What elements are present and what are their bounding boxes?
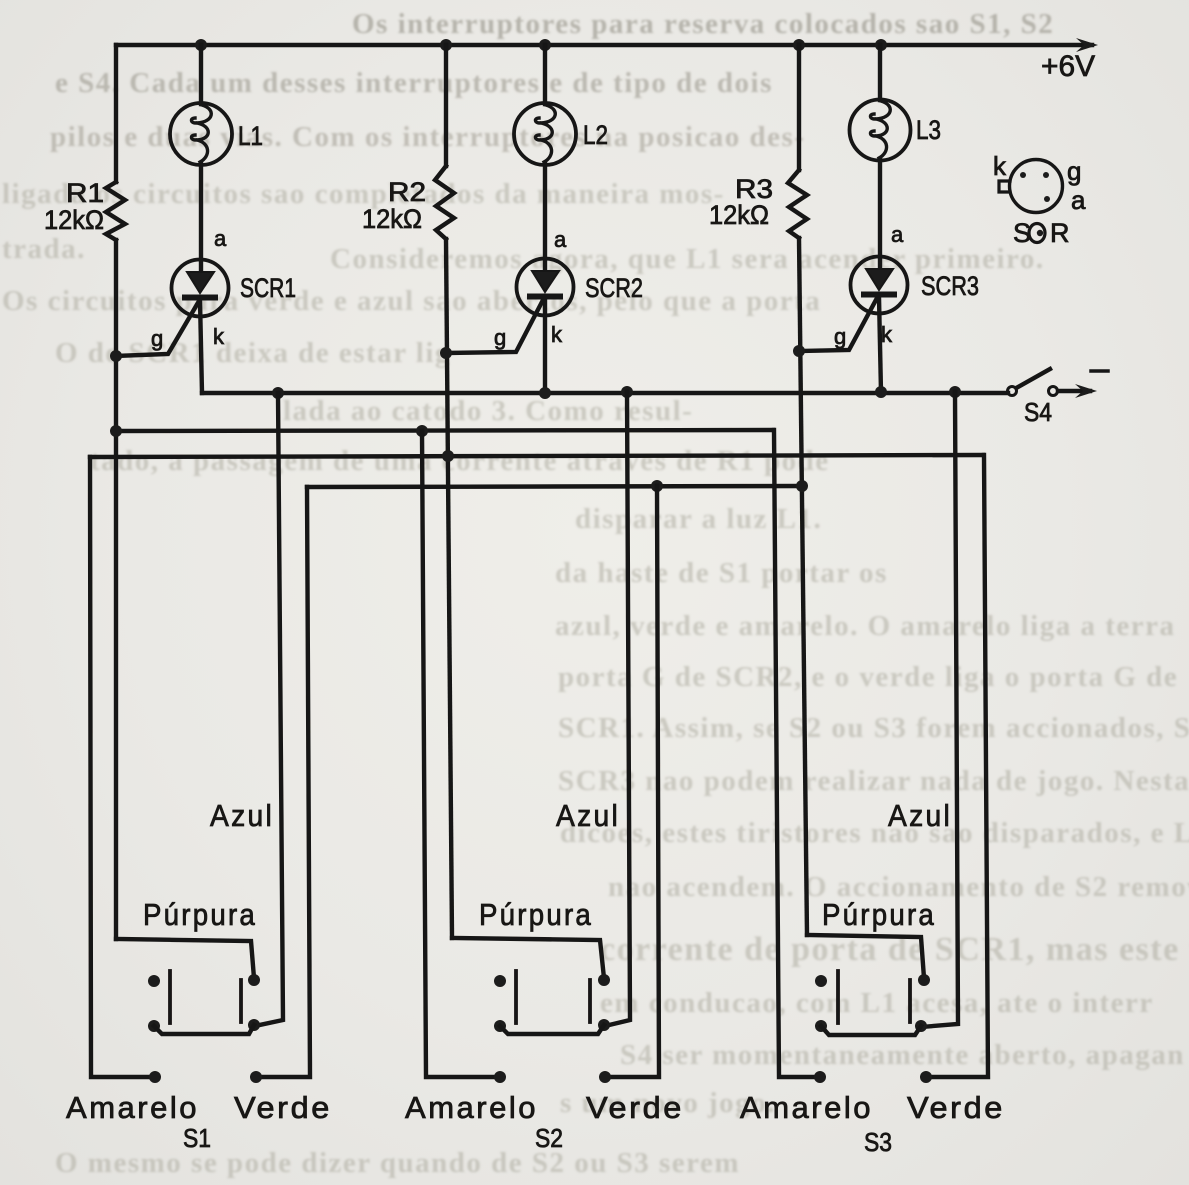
connector SOR label ring dot <box>1037 230 1043 236</box>
node top rail / R3 column <box>793 39 805 51</box>
wire L3 to SCR3 anode <box>878 160 882 269</box>
connector SOR pin a dot <box>1044 196 1050 202</box>
switch S2 top-right contact <box>598 974 610 986</box>
lamp L1 <box>170 103 232 165</box>
wire S3 yellow drop <box>774 430 820 1077</box>
switch S1 top-left contact <box>148 975 160 987</box>
switch S3 top-right contact <box>918 974 930 986</box>
node top rail / L1 column <box>195 39 207 51</box>
SCR1 anode triangle <box>187 272 214 293</box>
svg-text:SCR3: SCR3 <box>921 271 979 301</box>
svg-text:O mesmo se pode dizer quando d: O mesmo se pode dizer quando de S2 ou S3… <box>55 1147 740 1179</box>
svg-text:em conducao, com L1 acesa, ate: em conducao, com L1 acesa, ate o interr <box>600 987 1154 1019</box>
svg-text:Azul: Azul <box>556 798 620 833</box>
svg-text:disparar a luz L1.: disparar a luz L1. <box>575 503 822 535</box>
svg-text:S1: S1 <box>183 1123 211 1153</box>
svg-text:g: g <box>1067 156 1081 186</box>
wire SCR2 cathode down to rail <box>543 299 547 393</box>
wire S3 green drop <box>926 455 988 1077</box>
wire L2 top lead <box>543 45 547 104</box>
node top rail / L2 column <box>539 39 551 51</box>
svg-text:12kΩ: 12kΩ <box>44 205 104 235</box>
svg-text:S2: S2 <box>535 1123 563 1153</box>
node gate SCR2 / R2 column <box>440 347 452 359</box>
node rail / S1 blue drop <box>272 387 284 399</box>
switch S1 right pole stroke <box>239 980 243 1022</box>
svg-text:da haste de S1 portar os: da haste de S1 portar os <box>555 557 888 589</box>
S4 output arrowhead <box>1075 384 1097 398</box>
node gate SCR3 / R3 column <box>793 345 805 357</box>
svg-text:L2: L2 <box>583 120 608 150</box>
wire R1 top lead <box>114 45 118 182</box>
switch S2 green terminal <box>599 1071 611 1083</box>
svg-text:dicoes, estes tiristores nao s: dicoes, estes tiristores nao sao dispara… <box>560 817 1189 849</box>
battery minus sign <box>1091 369 1108 373</box>
svg-text:R1: R1 <box>66 178 104 208</box>
svg-text:a: a <box>891 222 904 247</box>
svg-text:L1: L1 <box>238 121 263 151</box>
svg-text:lada ao catodo 3. Como resul-: lada ao catodo 3. Como resul- <box>283 395 693 427</box>
svg-text:azul, verde e amarelo. O amare: azul, verde e amarelo. O amarelo liga a … <box>555 610 1175 642</box>
wire +6V top rail <box>116 43 1092 47</box>
wire S2 yellow drop <box>422 431 500 1077</box>
lamp L1 filament <box>191 105 211 162</box>
wire gate3 horizontal run <box>307 486 801 487</box>
svg-text:porta G de SCR2, e o verde lig: porta G de SCR2, e o verde liga o porta … <box>558 661 1178 693</box>
wire R3 column down to S3 purple elbow <box>799 238 807 935</box>
svg-text:R2: R2 <box>388 177 426 207</box>
switch S4 left contact <box>1008 387 1017 396</box>
svg-text:Os circuitos para verde e azul: Os circuitos para verde e azul sao abert… <box>2 285 821 317</box>
connector SOR package circle <box>1010 160 1063 213</box>
+6V rail arrowhead <box>1076 38 1098 52</box>
wire SCR3 cathode down to rail <box>879 297 881 392</box>
resistor R3 <box>788 170 807 238</box>
switch S2 left pole stroke <box>514 971 518 1023</box>
wire R2 top lead <box>444 45 448 166</box>
svg-text:Púrpura: Púrpura <box>143 897 257 932</box>
svg-text:k: k <box>551 322 563 347</box>
wire S4 to battery minus <box>1058 389 1090 393</box>
switch S2 bottom-left contact <box>494 1020 506 1032</box>
switch S3 top-left contact <box>815 975 827 987</box>
svg-text:g: g <box>494 325 506 350</box>
connector SOR pin k dot <box>1020 172 1026 178</box>
SCR2 cathode bar <box>530 294 560 300</box>
resistor R2 <box>435 166 454 239</box>
wire S2 purple lead <box>452 938 604 978</box>
svg-text:S4: S4 <box>1024 397 1052 427</box>
SCR3 cathode bar <box>864 292 894 298</box>
lamp L2 <box>514 103 576 165</box>
svg-text:Verde: Verde <box>907 1090 1005 1125</box>
wire S2 blue drop <box>605 392 630 1026</box>
wire R3 top lead <box>797 45 801 170</box>
svg-text:trada.: trada. <box>2 233 86 265</box>
svg-text:a: a <box>214 226 227 251</box>
wire L1 top lead <box>199 45 203 104</box>
switch S1 bottom-left contact <box>148 1020 160 1032</box>
svg-text:SCR1: SCR1 <box>240 273 296 303</box>
switch S1 top-right contact <box>248 974 260 986</box>
wire SCR1 gate diagonal <box>116 301 199 356</box>
connector SOR pin g dot <box>1043 172 1049 178</box>
svg-text:k: k <box>213 324 225 349</box>
wire R1 column down to S1 purple elbow <box>114 240 118 939</box>
wire S2 green drop <box>605 486 659 1077</box>
switch S1 bridge bar <box>154 1025 254 1034</box>
wire L2 to SCR2 anode <box>543 164 547 271</box>
switch S2 bridge bar <box>500 1025 604 1034</box>
node rail / S3 blue drop <box>949 386 961 398</box>
switch S3 green terminal <box>920 1071 932 1083</box>
switch S1 yellow terminal <box>149 1071 161 1083</box>
wire S3 blue drop <box>921 392 958 1027</box>
svg-text:g: g <box>151 326 163 351</box>
wire S1 green drop <box>256 487 310 1077</box>
svg-text:pilos e duas vias. Com os inte: pilos e duas vias. Com os interruptores … <box>50 121 805 153</box>
SCR1 circle <box>172 260 229 317</box>
svg-text:R: R <box>1050 218 1070 248</box>
switch S3 left pole stroke <box>836 971 840 1023</box>
svg-text:k: k <box>993 151 1007 181</box>
svg-text:S4 ser momentaneamente aberto,: S4 ser momentaneamente aberto, apagan <box>620 1039 1185 1071</box>
svg-text:Azul: Azul <box>888 798 952 833</box>
switch S3 bridge bar <box>821 1026 921 1035</box>
lamp L3 filament <box>870 101 890 158</box>
svg-text:S3: S3 <box>864 1127 892 1157</box>
wire SCR3 gate diagonal <box>799 298 877 351</box>
connector SOR label ring <box>1029 224 1045 243</box>
wire cathode rail <box>202 391 1008 395</box>
lamp L3 <box>850 100 911 161</box>
node top rail / R2 column <box>440 39 452 51</box>
node gate1 run / S2 yellow drop <box>416 425 428 437</box>
node top rail / L3 column <box>875 39 887 51</box>
wire gate2 horizontal run <box>90 455 983 457</box>
wire L3 top lead <box>878 45 882 100</box>
svg-text:Amarelo: Amarelo <box>66 1090 199 1125</box>
switch S3 yellow terminal <box>814 1071 826 1083</box>
switch S4 lever <box>1018 369 1050 387</box>
svg-text:SCR2: SCR2 <box>585 273 643 303</box>
switch S2 bottom-right contact <box>598 1019 610 1031</box>
wire SCR1 cathode down to rail <box>200 300 202 393</box>
wire S1 yellow drop <box>90 457 155 1077</box>
SCR3 anode triangle <box>866 269 893 290</box>
switch S1 green terminal <box>250 1071 262 1083</box>
switch S1 left pole stroke <box>168 971 172 1023</box>
node gate SCR1 / R1 column <box>110 350 122 362</box>
svg-text:12kΩ: 12kΩ <box>362 204 422 234</box>
node rail / SCR2 cathode <box>539 387 551 399</box>
node gate3 run / S2 green drop <box>651 480 663 492</box>
SCR3 circle <box>851 257 908 314</box>
wire gate1 horizontal run <box>116 430 773 431</box>
wire SCR2 gate diagonal <box>446 300 543 353</box>
svg-text:Amarelo: Amarelo <box>740 1090 873 1125</box>
node rail / S2 blue drop <box>621 386 633 398</box>
svg-text:+6V: +6V <box>1041 50 1095 83</box>
switch S1 bottom-right contact <box>248 1019 260 1031</box>
SCR2 circle <box>517 259 574 316</box>
wire S1 blue drop <box>255 393 283 1026</box>
svg-text:Os interruptores para reserva: Os interruptores para reserva colocados … <box>352 8 1054 40</box>
SCR1 cathode bar <box>185 295 215 301</box>
switch S3 bottom-right contact <box>915 1020 927 1032</box>
svg-text:SCR1. Assim, se S2 ou S3 forem: SCR1. Assim, se S2 ou S3 forem accionado… <box>558 712 1189 744</box>
svg-text:g: g <box>834 324 846 349</box>
svg-text:Amarelo: Amarelo <box>405 1090 538 1125</box>
svg-text:Púrpura: Púrpura <box>822 897 936 932</box>
svg-text:a: a <box>554 227 567 252</box>
wire S3 purple lead <box>807 935 924 978</box>
node gate2 run / R2 column <box>442 450 454 462</box>
node gate1 run / R1 column <box>110 425 122 437</box>
svg-text:Púrpura: Púrpura <box>479 897 593 932</box>
svg-text:SCR3 nao podem realizar nada d: SCR3 nao podem realizar nada de jogo. Ne… <box>558 765 1189 797</box>
switch S2 top-left contact <box>494 975 506 987</box>
svg-text:tado, a passagem de uma corren: tado, a passagem de uma corrente atraves… <box>90 445 830 477</box>
connector SOR key tab <box>999 181 1010 192</box>
node rail / SCR3 cathode <box>875 386 887 398</box>
svg-text:e S4. Cada um desses interrupt: e S4. Cada um desses interruptores e de … <box>55 67 773 99</box>
lamp L2 filament <box>535 105 555 162</box>
SCR2 anode triangle <box>532 271 559 292</box>
switch S3 bottom-left contact <box>815 1020 827 1032</box>
svg-text:Verde: Verde <box>234 1090 332 1125</box>
svg-text:L3: L3 <box>916 115 941 145</box>
resistor R1 <box>106 182 125 240</box>
switch S2 yellow terminal <box>494 1071 506 1083</box>
svg-text:Verde: Verde <box>586 1090 684 1125</box>
switch S4 right contact <box>1049 387 1058 396</box>
wire L1 to SCR1 anode <box>199 164 203 272</box>
svg-text:a: a <box>1071 185 1086 215</box>
switch S3 right pole stroke <box>908 980 912 1022</box>
switch S2 right pole stroke <box>588 980 592 1022</box>
node gate3 run / R3 column <box>796 480 808 492</box>
wire S1 purple lead <box>116 939 254 978</box>
svg-text:k: k <box>881 322 893 347</box>
svg-text:12kΩ: 12kΩ <box>709 200 769 230</box>
svg-text:S: S <box>1013 218 1031 248</box>
wire R2 column down to S2 purple elbow <box>446 239 452 938</box>
svg-text:Azul: Azul <box>210 798 274 833</box>
